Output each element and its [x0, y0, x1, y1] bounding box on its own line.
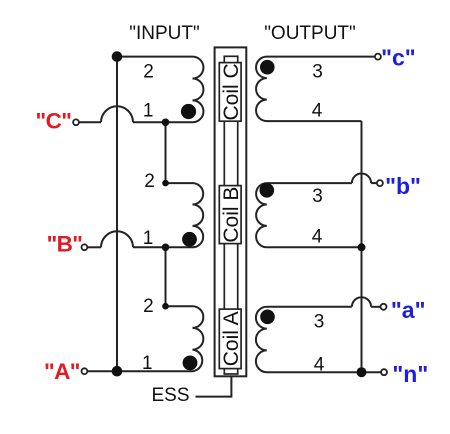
svg-text:2: 2	[144, 171, 155, 192]
svg-text:"n": "n"	[392, 361, 428, 387]
svg-text:4: 4	[314, 355, 325, 376]
svg-text:2: 2	[143, 296, 154, 317]
svg-text:1: 1	[142, 353, 153, 374]
svg-text:ESS: ESS	[152, 385, 190, 406]
svg-text:1: 1	[143, 228, 154, 249]
svg-text:3: 3	[312, 186, 323, 207]
svg-text:1: 1	[143, 100, 154, 121]
svg-text:"OUTPUT": "OUTPUT"	[264, 23, 356, 44]
svg-text:"A": "A"	[44, 359, 80, 384]
svg-text:4: 4	[312, 100, 323, 121]
svg-text:4: 4	[312, 226, 323, 247]
svg-text:Coil B: Coil B	[220, 187, 243, 243]
svg-text:Coil A: Coil A	[220, 311, 243, 366]
svg-text:2: 2	[143, 62, 154, 83]
svg-text:"b": "b"	[385, 173, 421, 199]
svg-text:"c": "c"	[381, 45, 416, 71]
svg-text:"a": "a"	[391, 297, 426, 323]
svg-text:3: 3	[314, 311, 325, 332]
svg-text:"INPUT": "INPUT"	[129, 23, 200, 44]
svg-text:Coil C: Coil C	[220, 63, 243, 120]
svg-text:"B": "B"	[47, 231, 83, 256]
svg-text:"C": "C"	[36, 109, 72, 134]
svg-text:3: 3	[312, 61, 323, 82]
